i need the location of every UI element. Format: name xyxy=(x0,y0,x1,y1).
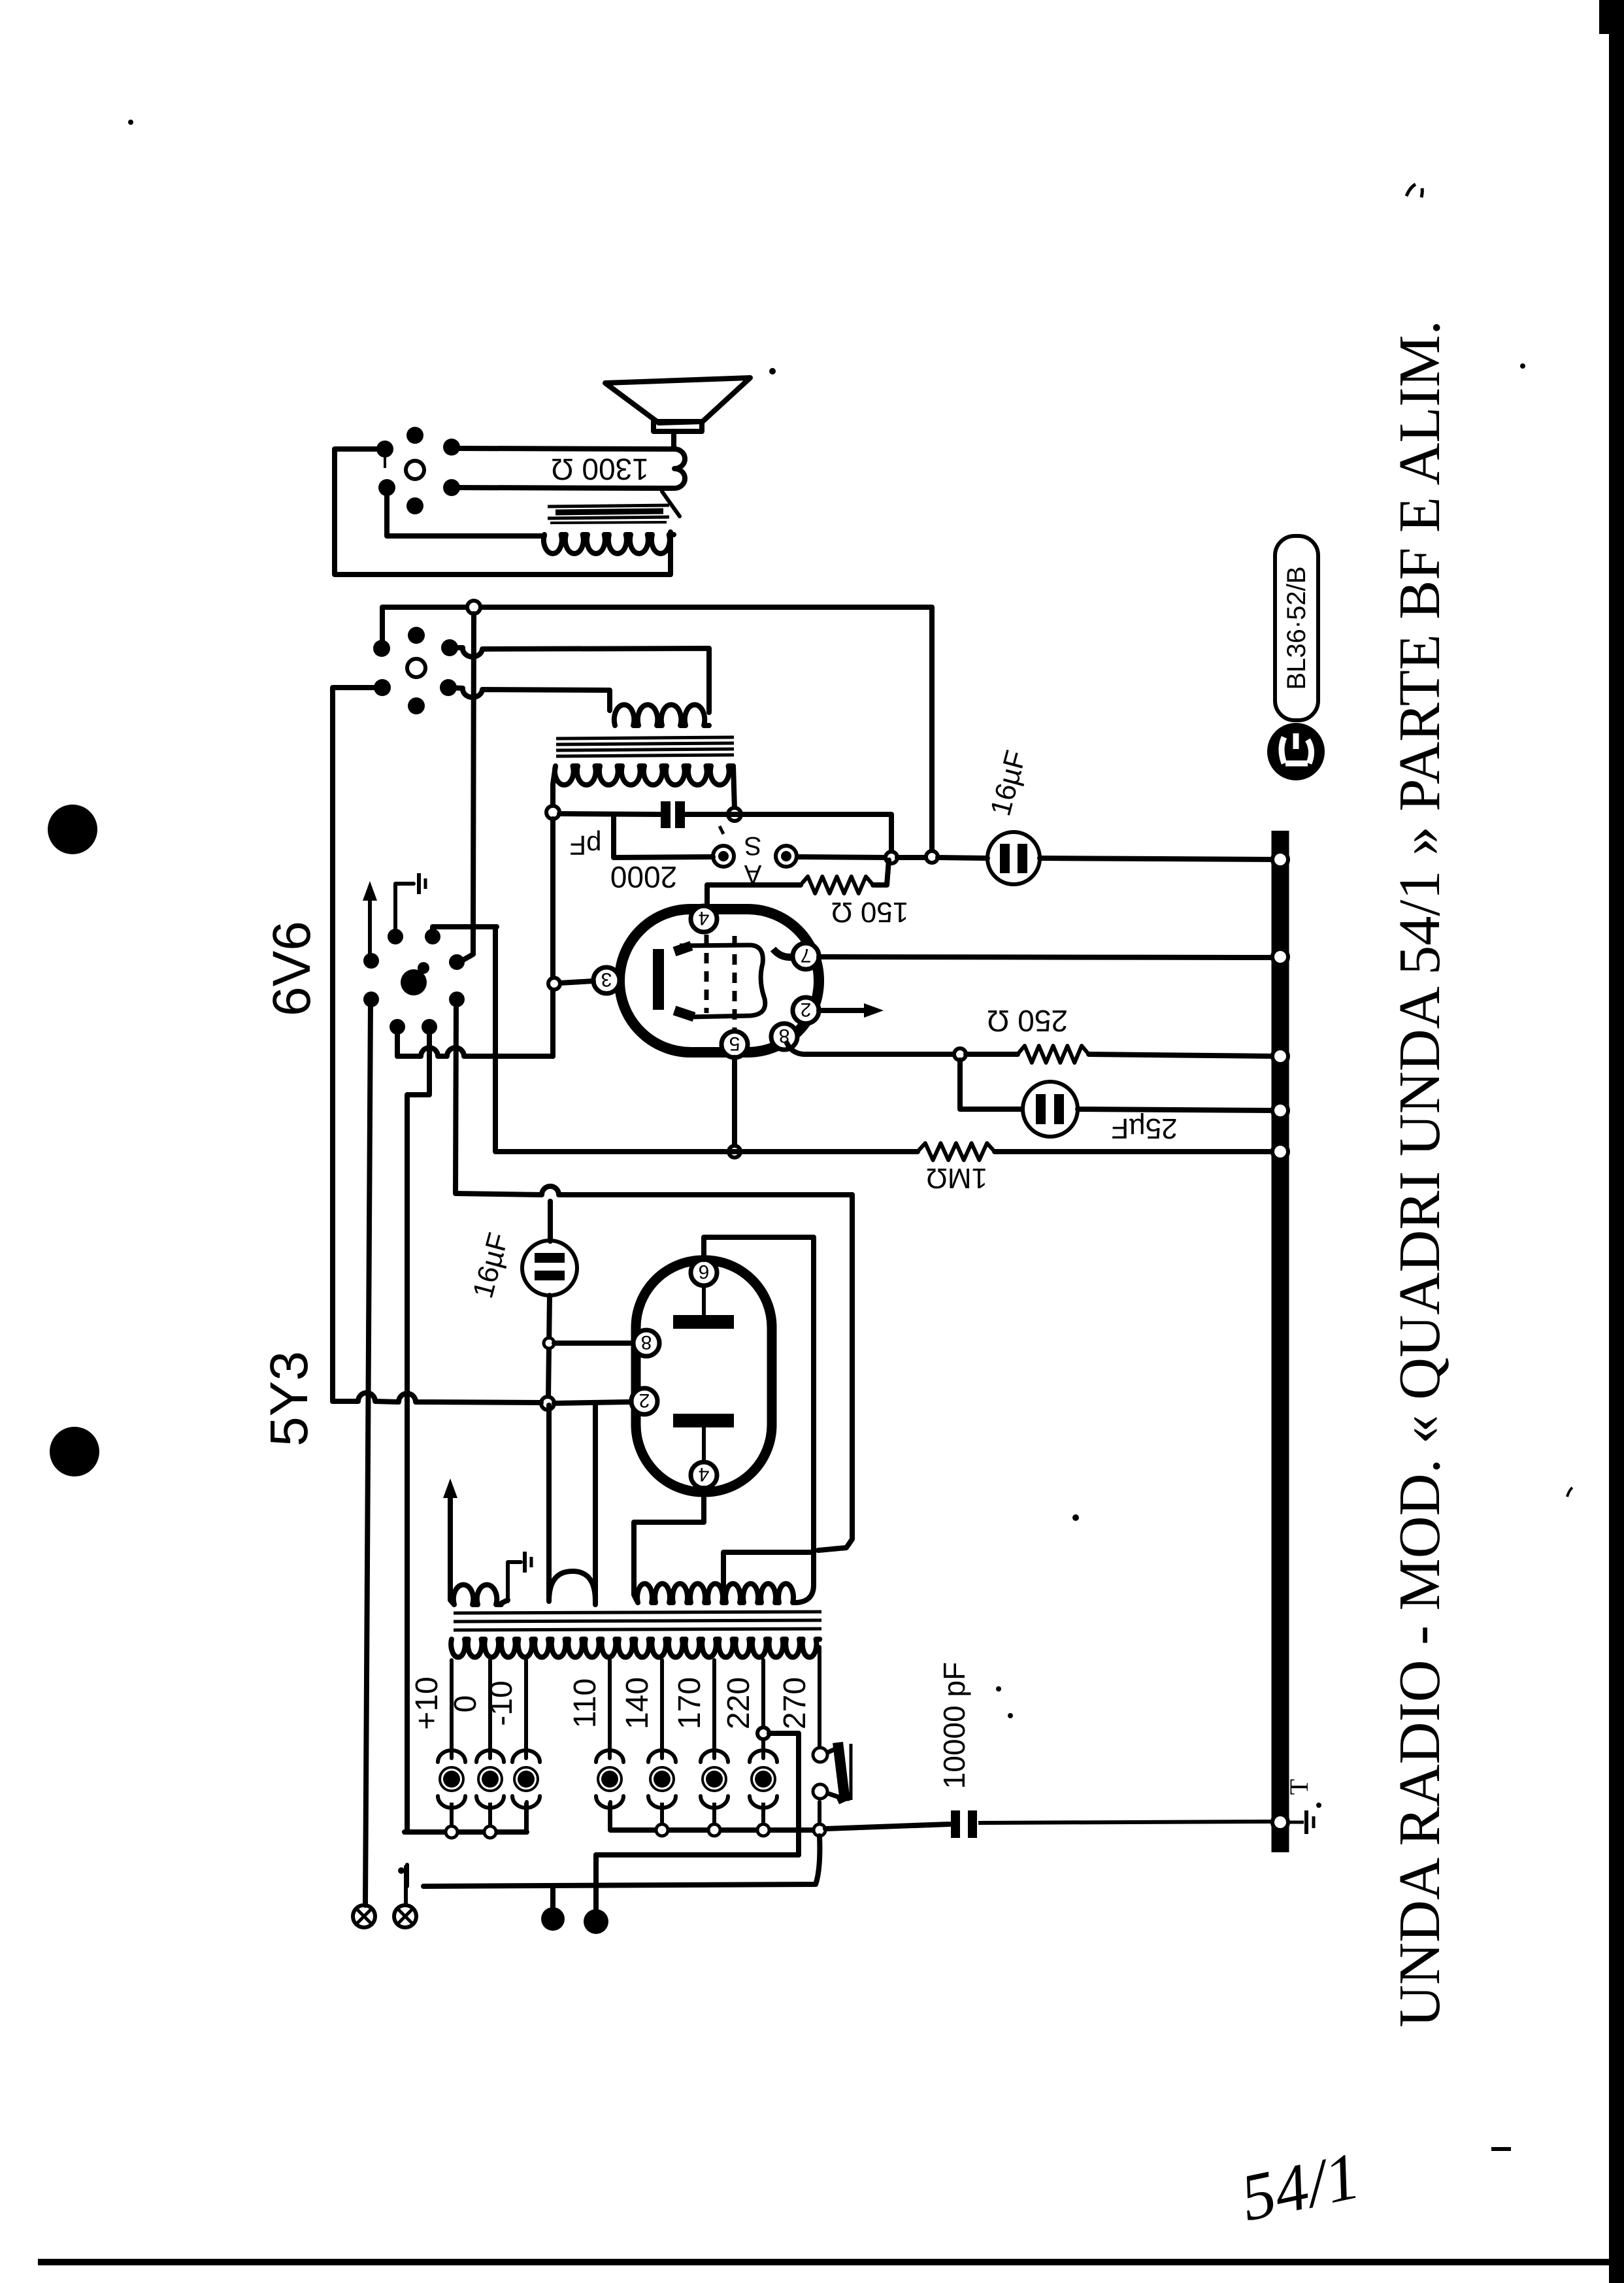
node plug bus right x1093 xyxy=(708,1824,720,1836)
svg-text:220: 220 xyxy=(721,1677,756,1729)
svg-text:-10: -10 xyxy=(484,1680,519,1725)
wire C4 feed drop xyxy=(548,1201,553,1241)
pen mark right margin xyxy=(1567,1488,1572,1497)
svg-text:1MΩ: 1MΩ xyxy=(926,1162,987,1194)
node plug bus right x1168 xyxy=(757,1824,769,1836)
tube V2 pin 4 xyxy=(691,1462,717,1488)
wire V2 top pin to HV right xyxy=(704,1237,814,1550)
wire node to R2 xyxy=(966,1052,1018,1057)
wire tap +10 drop xyxy=(450,1660,454,1758)
wire P2 to OT primary left xyxy=(448,688,610,710)
bus bar HT negative xyxy=(1272,831,1289,1852)
wire 5Y3 heater right end xyxy=(593,1586,598,1605)
connector P2 key circle xyxy=(407,659,425,677)
wire C2 to bus xyxy=(1040,858,1273,859)
plug socket 110 xyxy=(596,1750,623,1762)
wire plug bus left xyxy=(405,1829,527,1835)
ground T3 shield xyxy=(508,1562,521,1601)
svg-text:10000 pF: 10000 pF xyxy=(937,1662,971,1789)
tube V2 plate bar bottom xyxy=(673,1414,734,1427)
speck e xyxy=(1491,2147,1511,2151)
svg-text:3: 3 xyxy=(601,969,612,990)
node filter junction xyxy=(541,1397,554,1410)
ground socket X1 xyxy=(395,884,414,935)
node plug bus right x1254 xyxy=(814,1824,825,1836)
svg-text:7: 7 xyxy=(801,944,812,966)
arrow heater winding xyxy=(448,1490,453,1585)
wire socket pin drop terminal xyxy=(365,1001,371,1905)
wire T1 secondary right end xyxy=(733,766,735,809)
speck f xyxy=(1520,363,1525,369)
svg-text:270: 270 xyxy=(778,1677,812,1729)
transformer T3 heater winding 5Y3 xyxy=(549,1405,595,1601)
wire 5Y3 pin8 lead xyxy=(554,1341,631,1346)
wire terminal4 stub xyxy=(593,1855,599,1908)
label box BL36-52/B xyxy=(1275,536,1318,720)
node T1 secondary left xyxy=(546,806,559,819)
svg-text:150 Ω: 150 Ω xyxy=(831,896,909,928)
tube V1 pin 5 xyxy=(721,1031,748,1058)
svg-text:25µF: 25µF xyxy=(1111,1112,1177,1144)
tube V1 pin 8 xyxy=(771,1024,797,1050)
wire C3 to bus xyxy=(1078,1109,1273,1110)
transformer T2 secondary coil xyxy=(544,535,674,554)
node HT drop join xyxy=(926,851,938,863)
svg-text:110: 110 xyxy=(568,1678,603,1729)
resistor R3 1Mohm xyxy=(918,1143,995,1160)
wire P2 to OT primary right xyxy=(450,648,709,712)
wire terminal2 stub xyxy=(404,1867,408,1905)
wire vertical plate feed xyxy=(550,819,555,1056)
wire tap 220 drop xyxy=(761,1660,765,1758)
connector P1 key circle xyxy=(406,461,424,479)
svg-text:0: 0 xyxy=(448,1695,483,1713)
svg-text:170: 170 xyxy=(672,1677,707,1729)
logo UNDA xyxy=(1267,723,1325,780)
wire chassis dash xyxy=(405,1865,409,1886)
wire R2 to bus xyxy=(1089,1054,1273,1056)
wire speaker bottom lead xyxy=(457,488,674,488)
wire chassis rail xyxy=(423,1836,820,1886)
wire tap 0 drop xyxy=(488,1660,492,1758)
tube V1 grid dashed 2 xyxy=(733,936,737,1031)
svg-text:6: 6 xyxy=(699,1261,710,1282)
ground bus bottom xyxy=(1289,1821,1304,1824)
node grid leak xyxy=(729,1146,740,1158)
connector P2 pins xyxy=(408,627,425,644)
scan edge right strip xyxy=(1609,0,1624,2283)
transformer T1 secondary coil xyxy=(553,766,733,812)
wire tap 110 drop xyxy=(608,1660,612,1758)
wire node to C-2000 left xyxy=(559,814,661,814)
node T1 secondary right xyxy=(728,808,741,821)
speaker LS cone xyxy=(605,378,750,449)
tube V1 6V6 envelope xyxy=(620,909,819,1052)
node plug bus left b xyxy=(484,1826,496,1838)
transformer T3 core xyxy=(454,1612,821,1630)
tube V1 plate lead curve xyxy=(773,949,803,958)
tube V2 pin 6 xyxy=(691,1259,717,1286)
wire grid rail left xyxy=(495,927,918,1152)
wire tap 170 drop xyxy=(712,1660,716,1758)
wire socket pin drop left bus xyxy=(407,1029,429,1832)
wire pin3 to node xyxy=(560,981,593,983)
tube V1 cathode bar xyxy=(653,949,664,1010)
wire P2 lower-left to left drop xyxy=(333,688,382,1401)
wire C5 to bus bar xyxy=(978,1822,1272,1823)
tube V1 pin 7 xyxy=(793,943,819,969)
resistor R2 250ohm xyxy=(1018,1046,1089,1063)
svg-text:pF: pF xyxy=(569,830,601,861)
wire P1 loop to OT secondary right xyxy=(335,449,671,575)
node bus y2788 xyxy=(1272,1814,1288,1830)
svg-text:140: 140 xyxy=(620,1677,655,1729)
speaker voice coil arcs xyxy=(674,449,685,488)
wire to C3 25uF xyxy=(960,1060,1021,1109)
wire bias rail xyxy=(333,1393,541,1403)
transformer T3 heater winding 6V6 xyxy=(450,1585,501,1605)
speck b xyxy=(769,368,776,375)
wire HV right end xyxy=(797,1551,814,1603)
capacitor C2 plates xyxy=(1000,844,1010,873)
wire node to node2 xyxy=(897,855,926,860)
field coil diagonal tick xyxy=(662,492,680,516)
svg-text:6V6: 6V6 xyxy=(262,921,322,1016)
capacitor C1 2000pF plates xyxy=(661,801,671,828)
svg-text:2: 2 xyxy=(801,999,812,1020)
wire P1 to OT secondary left xyxy=(387,488,544,536)
wire heater winding right xyxy=(501,1600,508,1603)
wire branch to AS switch xyxy=(614,814,713,858)
transformer T2 core xyxy=(548,505,669,523)
svg-text:4: 4 xyxy=(699,907,710,929)
wire screen rail hops xyxy=(397,1048,553,1056)
transformer T1 primary coil xyxy=(614,705,709,725)
socket X1 6V6 pins xyxy=(388,929,403,944)
wire pin2 arrow xyxy=(819,1008,870,1013)
wire C4 to node xyxy=(548,1295,550,1399)
tube V1 grid box wedge top xyxy=(674,946,691,952)
plug socket 220 xyxy=(750,1750,777,1762)
wire socket pin drop heater2 xyxy=(456,1002,456,1193)
tube V2 stubs xyxy=(702,1285,706,1315)
node bus y1464 xyxy=(1272,949,1288,965)
wire HV center tap xyxy=(723,1552,814,1603)
wire pin7 to bus xyxy=(819,957,1273,958)
node plug bus right x1013 xyxy=(656,1824,668,1836)
tube V1 pin 3 xyxy=(593,967,620,993)
tube V2 pin 2 xyxy=(631,1388,657,1414)
plug socket 0 xyxy=(476,1750,504,1762)
tube V1 grid box wedge bottom xyxy=(674,1010,694,1017)
capacitor C2 16uF body xyxy=(987,832,1040,884)
speck g xyxy=(1008,1713,1013,1718)
wire R3 to bus xyxy=(995,1149,1273,1154)
resistor R1 150ohm xyxy=(801,876,873,893)
capacitor C4 16uF body xyxy=(522,1241,577,1295)
plug socket 170 xyxy=(701,1750,728,1762)
plug socket 140 xyxy=(648,1750,676,1762)
speck a xyxy=(128,120,133,125)
wire heater rail to rectifier xyxy=(456,1186,852,1195)
svg-text:BL36·52/B: BL36·52/B xyxy=(1282,566,1311,690)
switch AS contact right xyxy=(776,846,797,867)
svg-text:2000: 2000 xyxy=(610,860,677,894)
punch hole top-left xyxy=(48,805,97,854)
wire tap -10 drop xyxy=(524,1660,528,1758)
tube V2 5Y3 envelope xyxy=(636,1260,772,1492)
wire V2 pin4 to HV left xyxy=(634,1488,704,1586)
plug socket -10 xyxy=(512,1750,540,1762)
speck c xyxy=(1072,1514,1079,1521)
node junction at P2 rail xyxy=(467,601,480,614)
svg-text:250 Ω: 250 Ω xyxy=(987,1004,1068,1038)
switch S1 mains xyxy=(813,1748,827,1762)
arrow socket X1 heater xyxy=(368,892,372,956)
capacitor C3 25uF body xyxy=(1023,1082,1078,1137)
svg-text:UNDA RADIO - MOD. « QUADRI UND: UNDA RADIO - MOD. « QUADRI UNDA 54/1 » P… xyxy=(1387,320,1452,2027)
node pin8 tap xyxy=(544,1338,554,1348)
node AS output xyxy=(886,852,897,863)
node bus y1616 xyxy=(1272,1048,1288,1064)
wire R1 to AS node xyxy=(873,860,889,885)
svg-text:S: S xyxy=(744,831,762,860)
wire node to 5Y3 pin2 xyxy=(554,1402,629,1403)
wire node2 to C-16uF xyxy=(938,858,987,858)
wire 6V6 pin4 to R1 xyxy=(707,885,801,908)
wire HT rail top xyxy=(384,607,932,851)
svg-text:2: 2 xyxy=(639,1390,650,1411)
node tap220 branch xyxy=(757,1727,769,1739)
wire winding drop x911 xyxy=(593,1404,598,1586)
plug socket +10 xyxy=(438,1750,465,1762)
speck d xyxy=(996,1686,1001,1691)
terminal E4 xyxy=(584,1909,608,1934)
wire C-2000 right to corner xyxy=(685,814,891,852)
terminal E2 xyxy=(394,1905,416,1927)
wire rectifier drop jog xyxy=(818,1195,852,1550)
wire tap220 branch xyxy=(769,1733,799,1855)
capacitor C5 10000pF xyxy=(951,1810,960,1838)
switch AS contact left xyxy=(713,846,734,867)
node pin3 junction xyxy=(548,978,560,990)
node bus y1315 xyxy=(1272,852,1288,867)
svg-text:4: 4 xyxy=(699,1463,710,1485)
switch AS tick xyxy=(720,826,723,834)
svg-text:1300 Ω: 1300 Ω xyxy=(551,452,649,486)
wire speaker top lead xyxy=(457,448,674,449)
node bus y1699 xyxy=(1272,1103,1288,1118)
svg-text:+10: +10 xyxy=(410,1676,444,1729)
node R2 left xyxy=(954,1048,966,1060)
wire P2 upper-left pin drop xyxy=(380,607,385,641)
pen mark top right xyxy=(1406,184,1422,197)
svg-text:T: T xyxy=(1284,1779,1314,1795)
tube V1 pin 4 xyxy=(691,906,717,932)
wire pin5 drop xyxy=(732,1058,737,1145)
capacitor C3 plates xyxy=(1036,1094,1046,1124)
wire plug bus right xyxy=(610,1827,820,1833)
wire terminal3 stub xyxy=(550,1886,555,1907)
transformer T3 HV winding xyxy=(634,1584,797,1603)
wire pin8 to R2 xyxy=(787,1043,954,1054)
node bus y1762 xyxy=(1272,1144,1288,1159)
wire socket pin drop 608 xyxy=(395,1029,400,1056)
wire mains neutral xyxy=(596,1852,799,1858)
transformer T3 primary winding xyxy=(451,1639,820,1658)
wire tap 270 drop xyxy=(818,1647,821,1747)
tube V1 pin 2 xyxy=(793,997,819,1024)
svg-text:8: 8 xyxy=(641,1331,652,1353)
transformer T1 core xyxy=(556,737,734,756)
node plug bus left a xyxy=(446,1826,457,1838)
svg-text:5Y3: 5Y3 xyxy=(259,1351,319,1446)
wire socket top rail xyxy=(433,927,497,935)
tube V1 grid dashed 1 xyxy=(704,935,709,1013)
wire bus to C5 xyxy=(825,1824,950,1829)
scan edge bottom line xyxy=(38,2259,1624,2265)
tube V2 plate bar top xyxy=(673,1315,734,1329)
wire tap 140 drop xyxy=(660,1660,664,1758)
punch hole bottom-left xyxy=(50,1427,99,1476)
capacitor C4 plates xyxy=(535,1253,565,1263)
tube V2 pin 8 xyxy=(633,1330,659,1356)
wire AS right to node xyxy=(797,857,886,858)
svg-text:5: 5 xyxy=(729,1033,740,1054)
connector P1 pins xyxy=(406,427,423,444)
terminal E3 xyxy=(541,1907,565,1931)
connector P1 pin stub xyxy=(384,458,386,468)
wire junction drop to 6V6 socket xyxy=(459,614,474,962)
socket X1 key xyxy=(401,969,427,995)
terminal E1 antenna xyxy=(353,1905,375,1927)
tube V1 grid box xyxy=(680,945,765,1017)
